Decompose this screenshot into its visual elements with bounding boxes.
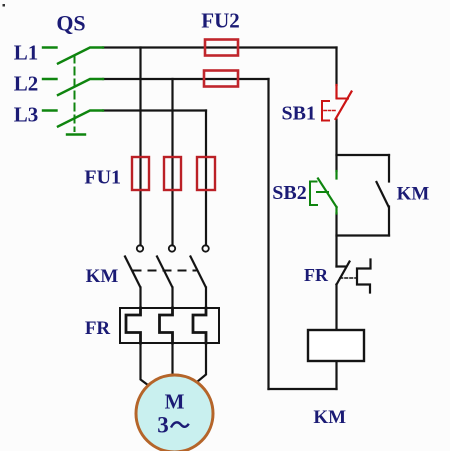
svg-text:FR: FR xyxy=(85,318,111,339)
svg-text:3: 3 xyxy=(157,413,169,438)
svg-text:FU1: FU1 xyxy=(84,167,121,189)
svg-text:KM: KM xyxy=(86,266,119,287)
svg-text:KM: KM xyxy=(397,184,430,205)
svg-text:L2: L2 xyxy=(14,72,39,96)
svg-text:SB2: SB2 xyxy=(272,182,306,204)
svg-text:FU2: FU2 xyxy=(201,9,240,33)
svg-text:QS: QS xyxy=(56,11,85,36)
svg-text:SB1: SB1 xyxy=(281,103,315,125)
svg-text:KM: KM xyxy=(313,407,346,428)
svg-text:L1: L1 xyxy=(14,41,39,65)
svg-text:M: M xyxy=(165,390,185,414)
svg-text:L3: L3 xyxy=(14,103,39,127)
svg-text:FR: FR xyxy=(304,265,329,285)
